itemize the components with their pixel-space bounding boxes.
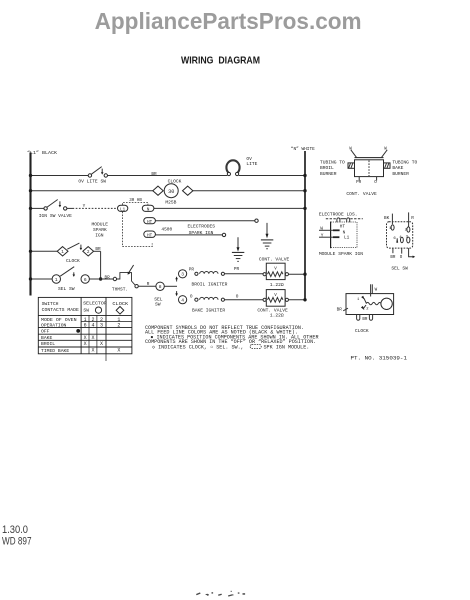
svg-text:BR: BR xyxy=(105,276,111,281)
svg-text:HT: HT xyxy=(147,221,153,225)
clock contact blade xyxy=(67,243,82,250)
label TUBING TO BAKE BURNER xyxy=(392,160,417,177)
svg-text:X: X xyxy=(91,335,94,341)
ground electrode 2 xyxy=(232,237,244,261)
svg-text:X: X xyxy=(84,341,87,347)
table text xyxy=(41,301,128,354)
svg-text:HT: HT xyxy=(147,235,153,239)
ground electrode 1 xyxy=(261,223,273,249)
faint page-bottom remnants xyxy=(196,591,245,597)
module spark ign box (right side) xyxy=(319,211,363,257)
svg-text:1: 1 xyxy=(61,250,64,255)
svg-text:L1: L1 xyxy=(344,236,350,241)
selector blade to 4 xyxy=(175,291,178,296)
svg-text:CLOCK: CLOCK xyxy=(168,179,182,185)
contact clock diamond 1 xyxy=(57,247,68,256)
svg-text:6: 6 xyxy=(84,277,87,283)
svg-text:Y: Y xyxy=(321,233,324,238)
svg-text:TUBING TO: TUBING TO xyxy=(392,160,417,166)
svg-text:BR: BR xyxy=(362,318,368,322)
svg-text:BK: BK xyxy=(384,216,390,221)
electrode gap 1 xyxy=(255,219,258,222)
svg-text:SWITCH: SWITCH xyxy=(42,301,59,307)
svg-text:SW: SW xyxy=(155,301,161,307)
coil BAKE IGNITER xyxy=(192,295,263,314)
svg-text:◇ INDICATES CLOCK, ○ SEL. SW.: ◇ INDICATES CLOCK, ○ SEL. SW., xyxy=(152,344,244,350)
switch IGN SW VALVE xyxy=(39,200,72,220)
svg-text:SEL SW: SEL SW xyxy=(391,265,408,271)
svg-text:IGN: IGN xyxy=(95,232,104,238)
bus N (right, WHITE) xyxy=(291,146,315,300)
electrode gap 2 xyxy=(222,233,225,236)
contact SEL SW 6 xyxy=(58,275,89,292)
svg-text:BURNER: BURNER xyxy=(320,171,337,177)
svg-text:CONT. VALVE: CONT. VALVE xyxy=(259,257,290,263)
wire row 1 (BR, oven light) xyxy=(29,172,307,177)
svg-text:ELECTRODES: ELECTRODES xyxy=(188,224,216,230)
contact SEL SW 4 xyxy=(179,294,193,304)
wire row 4 (clock contacts) xyxy=(29,250,58,253)
svg-text:SPK IGN MODULE.: SPK IGN MODULE. xyxy=(264,344,310,350)
svg-text:4: 4 xyxy=(181,298,184,304)
wire row 5 (selector contacts) xyxy=(29,276,113,281)
thermostat THMST xyxy=(112,265,138,292)
svg-text:CLOCK: CLOCK xyxy=(66,258,80,264)
svg-text:BURNER: BURNER xyxy=(392,171,409,177)
wire BR from clock contact down to selector row xyxy=(94,251,103,280)
svg-text:M25B: M25B xyxy=(165,199,176,205)
spark module dashed outline + 30 HB label xyxy=(92,199,153,247)
gas control valve pictorial (CONT. VALVE top right) xyxy=(346,147,390,197)
svg-text:CLOCK: CLOCK xyxy=(355,328,369,334)
svg-text:BROIL: BROIL xyxy=(41,341,55,347)
selector blade xyxy=(60,267,75,277)
label 4500 / ELECTRODES SPARK IGN xyxy=(161,224,215,236)
svg-text:BR: BR xyxy=(151,172,157,177)
svg-text:1.22Ω: 1.22Ω xyxy=(270,282,284,288)
svg-text:O: O xyxy=(236,295,239,300)
switch OV LITE SW xyxy=(78,167,107,185)
svg-text:Y: Y xyxy=(83,204,86,209)
switch contacts table xyxy=(38,297,132,361)
svg-text:PR: PR xyxy=(234,267,240,272)
svg-text:BROIL: BROIL xyxy=(320,165,334,171)
svg-text:X: X xyxy=(84,335,87,341)
selector blade to 3 xyxy=(175,276,178,281)
svg-text:OV LITE SW: OV LITE SW xyxy=(78,178,106,184)
svg-text:3: 3 xyxy=(100,323,103,329)
svg-text:2: 2 xyxy=(87,250,90,255)
svg-text:BAKE: BAKE xyxy=(41,335,52,341)
svg-text:MODULE: MODULE xyxy=(92,221,109,227)
coil BROIL IGNITER xyxy=(192,267,264,288)
contact SEL SW 3 xyxy=(179,268,195,278)
svg-text:SPARK IGN: SPARK IGN xyxy=(189,230,214,236)
svg-text:PR: PR xyxy=(189,268,195,273)
svg-text:IGN SW VALVE: IGN SW VALVE xyxy=(39,213,72,219)
svg-text:BROIL IGNITER: BROIL IGNITER xyxy=(192,281,228,287)
svg-text:OFF: OFF xyxy=(41,329,50,335)
svg-text:4500: 4500 xyxy=(161,226,172,232)
svg-text:R: R xyxy=(147,282,150,287)
selector switch rear view box (SEL SW right) xyxy=(384,212,415,271)
svg-text:30: 30 xyxy=(168,189,174,195)
svg-text:OPERATION: OPERATION xyxy=(41,322,67,328)
label TUBING TO BROIL BURNER xyxy=(320,160,345,177)
svg-text:TIMED BAKE: TIMED BAKE xyxy=(41,348,69,354)
svg-text:X: X xyxy=(100,341,103,347)
terminal N of spark module xyxy=(142,205,154,212)
clock motor (30 M25B) xyxy=(153,179,193,206)
svg-text:X: X xyxy=(117,348,120,354)
svg-text:CONTACTS MADE: CONTACTS MADE xyxy=(42,307,79,313)
svg-text:O: O xyxy=(190,294,193,299)
svg-text:AppliancePartsPros.com: AppliancePartsPros.com xyxy=(95,8,362,34)
svg-text:PR: PR xyxy=(356,181,362,185)
wire R to selector hub xyxy=(138,282,156,287)
svg-text:CLOCK: CLOCK xyxy=(112,301,128,307)
terminal HT2 of spark module xyxy=(144,231,223,239)
valve coil CONT. VALVE 1.22R (bake) xyxy=(257,290,306,319)
svg-text:CONT. VALVE: CONT. VALVE xyxy=(346,191,377,197)
wire row 3 (ignition switch / module row) xyxy=(29,204,307,210)
svg-text:6: 6 xyxy=(84,323,87,329)
svg-text:MODE OF OVEN: MODE OF OVEN xyxy=(41,317,77,323)
wire row 2 (clock motor feed) xyxy=(29,189,307,192)
svg-text:X: X xyxy=(91,348,94,354)
svg-text:SEL SW: SEL SW xyxy=(58,286,75,292)
svg-text:2: 2 xyxy=(117,323,120,329)
clock assembly box (bottom right) xyxy=(337,284,394,334)
svg-text:BAKE IGNITER: BAKE IGNITER xyxy=(192,307,225,313)
svg-text:BR: BR xyxy=(390,256,396,260)
terminal HT1 of spark module xyxy=(144,218,255,225)
svg-text:“N” WHITE: “N” WHITE xyxy=(291,146,315,152)
svg-text:1.30.0: 1.30.0 xyxy=(2,524,28,536)
svg-text:R: R xyxy=(411,216,414,221)
svg-text:W: W xyxy=(320,226,323,231)
valve coil CONT. VALVE 1.22R (broil) xyxy=(259,257,307,288)
svg-text:SW: SW xyxy=(83,307,89,313)
footer revision text xyxy=(2,524,32,548)
svg-text:3: 3 xyxy=(181,272,184,278)
lamp OV LITE xyxy=(226,156,257,176)
svg-text:MODULE SPARK IGN: MODULE SPARK IGN xyxy=(319,251,363,257)
contact clock diamond 2 xyxy=(66,247,101,265)
svg-text:PT. NO. 315039-1: PT. NO. 315039-1 xyxy=(351,354,408,361)
bus L1 (left, BLACK) xyxy=(27,150,57,296)
svg-text:TUBING TO: TUBING TO xyxy=(320,160,345,166)
svg-text:WD 897: WD 897 xyxy=(2,535,32,547)
svg-text:BAKE: BAKE xyxy=(392,165,403,171)
svg-text:SPARK: SPARK xyxy=(93,227,107,233)
svg-text:SELECTOR: SELECTOR xyxy=(83,301,107,307)
terminal L1 of spark module xyxy=(118,205,128,212)
svg-text:HT: HT xyxy=(340,225,346,230)
svg-text:1: 1 xyxy=(55,277,58,283)
svg-text:4: 4 xyxy=(91,323,94,329)
contact SEL SW 1 xyxy=(52,275,60,283)
svg-text:ELECTRODE LDS.: ELECTRODE LDS. xyxy=(319,211,358,217)
svg-text:WIRING DIAGRAM: WIRING DIAGRAM xyxy=(181,55,260,66)
svg-text:LITE: LITE xyxy=(246,161,257,167)
svg-text:1.22Ω: 1.22Ω xyxy=(270,312,284,318)
svg-text:THMST.: THMST. xyxy=(112,286,128,292)
svg-text:BR: BR xyxy=(337,308,343,313)
notes block xyxy=(145,325,319,350)
svg-text:“L1” BLACK: “L1” BLACK xyxy=(27,150,57,156)
contact SEL SW 8 (hub) xyxy=(154,282,177,307)
svg-text:8: 8 xyxy=(159,284,162,290)
